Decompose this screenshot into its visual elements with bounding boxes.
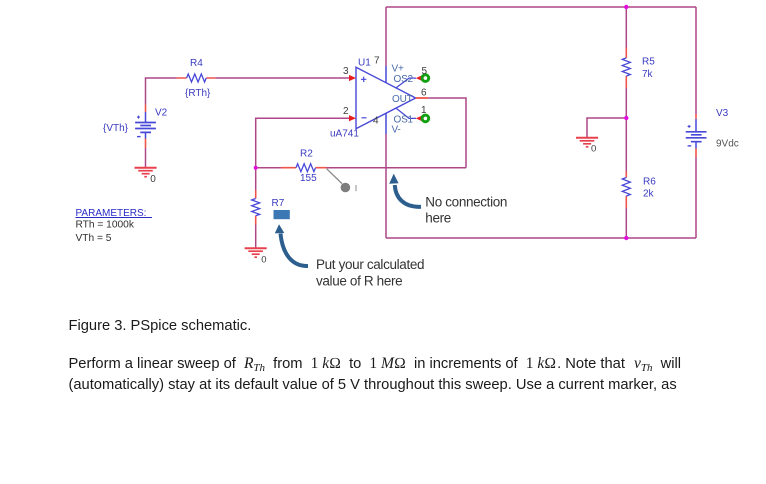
svg-text:OUT: OUT xyxy=(392,94,413,105)
ground 0 mid right xyxy=(576,138,598,155)
svg-text:{RTh}: {RTh} xyxy=(185,88,211,99)
svg-text:9Vdc: 9Vdc xyxy=(716,139,739,150)
op-amp U1 uA741 xyxy=(330,58,416,140)
pin 4 V- xyxy=(373,116,401,136)
svg-text:R4: R4 xyxy=(190,58,203,69)
svg-text:here: here xyxy=(425,211,451,226)
svg-text:OS1: OS1 xyxy=(394,115,414,126)
wire V+ rail vertical xyxy=(385,7,387,66)
annotation text put your calculated value xyxy=(316,257,424,289)
svg-text:U1: U1 xyxy=(358,58,371,69)
paragraph text xyxy=(69,353,729,396)
svg-text:7: 7 xyxy=(374,56,380,67)
ground 0 under V2 xyxy=(135,168,157,185)
wire top rail V+ to R5/V3 xyxy=(386,6,696,8)
svg-text:RTh = 1000k: RTh = 1000k xyxy=(76,220,135,231)
pin 2 arrow xyxy=(343,106,356,121)
svg-text:2: 2 xyxy=(343,106,349,117)
svg-text:No connection: No connection xyxy=(425,195,507,210)
R7 value placeholder blue box xyxy=(274,210,290,219)
svg-text:0: 0 xyxy=(150,174,156,185)
svg-text:0: 0 xyxy=(591,144,596,155)
pin 5 OS2 no-connect xyxy=(394,66,429,88)
svg-text:{VTh}: {VTh} xyxy=(103,123,129,134)
annotation text no connection xyxy=(425,195,507,226)
junction node top R5 xyxy=(624,5,628,9)
svg-text:0: 0 xyxy=(261,254,266,265)
pin 7 V+ xyxy=(374,56,404,75)
wire feedback right edge xyxy=(428,98,466,168)
svg-text:R5: R5 xyxy=(642,57,655,68)
wire V2 bottom to ground xyxy=(145,148,147,167)
svg-text:5: 5 xyxy=(422,66,428,77)
wire R7 branch xyxy=(255,168,257,248)
svg-text:PARAMETERS:: PARAMETERS: xyxy=(76,208,153,219)
ground 0 under R7 xyxy=(245,248,267,265)
svg-text:R2: R2 xyxy=(300,149,313,160)
wire V2 to R4 to pin3 xyxy=(146,78,351,105)
svg-text:V-: V- xyxy=(392,125,401,136)
svg-text:V2: V2 xyxy=(155,108,168,119)
resistor R5 xyxy=(622,48,655,89)
junction node mid R5/R6/gnd xyxy=(624,116,628,120)
parameters block xyxy=(76,208,153,244)
wire V3 branch upper xyxy=(695,7,697,114)
wire mid ground tap xyxy=(587,118,626,138)
svg-text:R6: R6 xyxy=(643,177,656,188)
svg-text:4: 4 xyxy=(373,116,379,127)
junction node pin2/R2/R7 xyxy=(254,166,258,170)
pin 3 arrow xyxy=(343,66,356,81)
callout arrow to R7 value xyxy=(275,224,308,266)
svg-text:uA741: uA741 xyxy=(330,129,359,140)
svg-text:6: 6 xyxy=(421,88,427,99)
resistor R6 xyxy=(622,172,656,209)
wire pin2 branch xyxy=(256,118,350,168)
current marker I xyxy=(327,169,357,193)
svg-text:VTh = 5: VTh = 5 xyxy=(76,233,112,244)
resistor R2 xyxy=(281,149,327,185)
callout arrow to no-connection crossing xyxy=(389,174,421,207)
svg-text:155: 155 xyxy=(300,173,317,184)
resistor R7 xyxy=(252,190,285,225)
svg-text:OS2: OS2 xyxy=(394,74,414,85)
svg-text:V3: V3 xyxy=(716,108,729,119)
pin 1 OS1 no-connect xyxy=(394,105,429,126)
figure caption xyxy=(69,318,252,334)
voltage source V3 xyxy=(686,108,739,157)
svg-text:1: 1 xyxy=(421,105,427,116)
svg-text:V+: V+ xyxy=(392,64,404,75)
wire bottom rail xyxy=(386,237,696,239)
svg-text:R7: R7 xyxy=(272,198,285,209)
voltage source V2 xyxy=(103,105,168,149)
wire R5R6 branch segments xyxy=(625,7,627,238)
svg-text:3: 3 xyxy=(343,66,349,77)
wire V3 branch lower xyxy=(695,157,697,238)
resistor R4 xyxy=(177,58,216,99)
svg-text:value of R here: value of R here xyxy=(316,274,402,289)
pin 6 OUT xyxy=(392,88,428,106)
wire feedback bottom R2 xyxy=(256,167,466,169)
wire V- rail vertical xyxy=(385,134,387,238)
svg-text:7k: 7k xyxy=(642,69,654,80)
svg-text:Put your calculated: Put your calculated xyxy=(316,257,424,272)
svg-text:2k: 2k xyxy=(643,189,655,200)
junction node bottom R6 xyxy=(624,236,628,240)
